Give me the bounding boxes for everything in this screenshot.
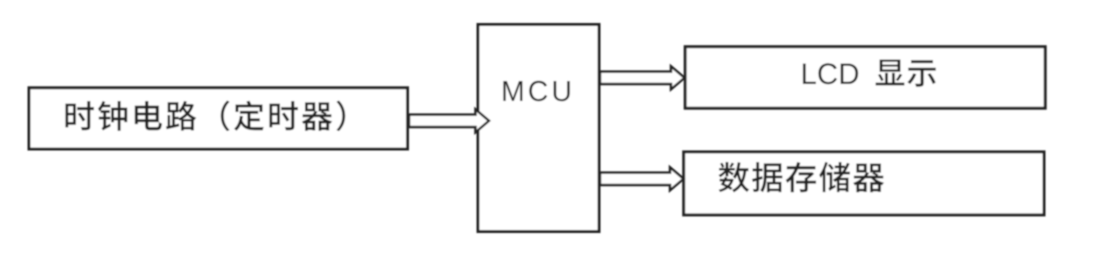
arrow: MCU to data memory (600, 167, 684, 190)
label: MCU (501, 76, 575, 108)
block: MCU box (478, 25, 599, 232)
label: LCD 显示 (801, 58, 936, 91)
arrow: MCU to LCD (600, 66, 685, 89)
block: clock circuit (timer) box (29, 88, 408, 149)
svg-text:LCD: LCD (801, 58, 860, 91)
label: 数据存储器 (719, 162, 885, 192)
block: LCD display box (685, 47, 1045, 108)
svg-text:MCU: MCU (501, 76, 575, 108)
block: data memory box (684, 152, 1044, 215)
arrow: clock to MCU (409, 109, 489, 132)
label: 时钟电路（定时器） (65, 101, 345, 132)
